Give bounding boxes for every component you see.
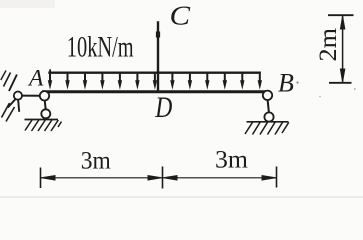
svg-text:C: C [170, 1, 191, 31]
svg-text:A: A [27, 66, 44, 92]
svg-text:2m: 2m [315, 27, 342, 61]
svg-text:B: B [278, 69, 294, 98]
svg-text:10kN/m: 10kN/m [67, 30, 134, 64]
svg-text:D: D [154, 90, 172, 123]
svg-text:3m: 3m [81, 147, 112, 174]
svg-text:3m: 3m [215, 147, 249, 174]
